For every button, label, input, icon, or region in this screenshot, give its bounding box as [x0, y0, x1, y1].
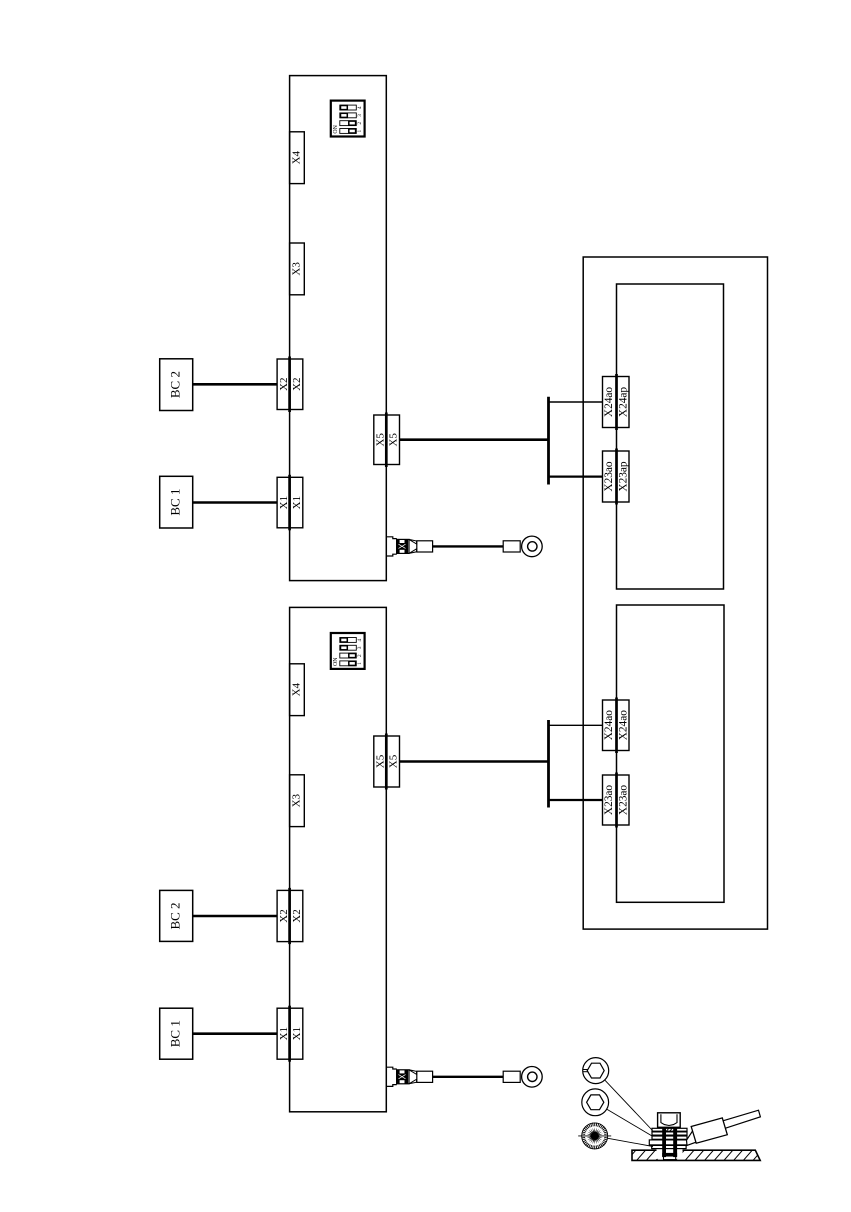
svg-text:2: 2 — [357, 654, 363, 657]
svg-text:X1: X1 — [291, 1027, 303, 1040]
svg-text:X1: X1 — [278, 496, 290, 509]
svg-text:BC 1: BC 1 — [168, 1020, 183, 1047]
svg-text:X5: X5 — [375, 754, 387, 768]
svg-text:X5: X5 — [388, 433, 400, 447]
svg-text:X24ао: X24ао — [603, 387, 615, 417]
svg-text:X3: X3 — [291, 262, 303, 276]
svg-text:X5: X5 — [388, 754, 400, 768]
svg-text:X23ар: X23ар — [617, 461, 629, 491]
svg-text:X2: X2 — [278, 377, 290, 390]
svg-text:ON: ON — [333, 124, 339, 133]
svg-text:3: 3 — [357, 646, 363, 649]
svg-text:X23ао: X23ао — [603, 785, 615, 815]
svg-text:X3: X3 — [291, 793, 303, 807]
svg-text:X2: X2 — [291, 909, 303, 922]
svg-text:1: 1 — [357, 662, 363, 665]
svg-text:X1: X1 — [291, 496, 303, 509]
svg-text:X2: X2 — [278, 909, 290, 922]
svg-text:X2: X2 — [291, 377, 303, 390]
svg-text:BC 1: BC 1 — [168, 489, 183, 516]
svg-text:X23ао: X23ао — [617, 785, 629, 815]
svg-text:X1: X1 — [278, 1027, 290, 1040]
svg-text:2: 2 — [357, 122, 363, 125]
svg-text:X4: X4 — [291, 150, 303, 164]
svg-text:BC 2: BC 2 — [168, 902, 183, 929]
svg-text:X5: X5 — [375, 433, 387, 447]
svg-text:4: 4 — [357, 638, 363, 641]
svg-text:3: 3 — [357, 114, 363, 117]
svg-text:1: 1 — [357, 129, 363, 132]
svg-text:X4: X4 — [291, 682, 303, 696]
svg-text:BC 2: BC 2 — [168, 371, 183, 398]
svg-text:X23ао: X23ао — [603, 461, 615, 491]
svg-text:ON: ON — [333, 657, 339, 666]
svg-text:X24ар: X24ар — [617, 387, 629, 417]
svg-text:X24ао: X24ао — [603, 710, 615, 740]
svg-text:4: 4 — [357, 106, 363, 109]
svg-text:X24ао: X24ао — [617, 710, 629, 740]
